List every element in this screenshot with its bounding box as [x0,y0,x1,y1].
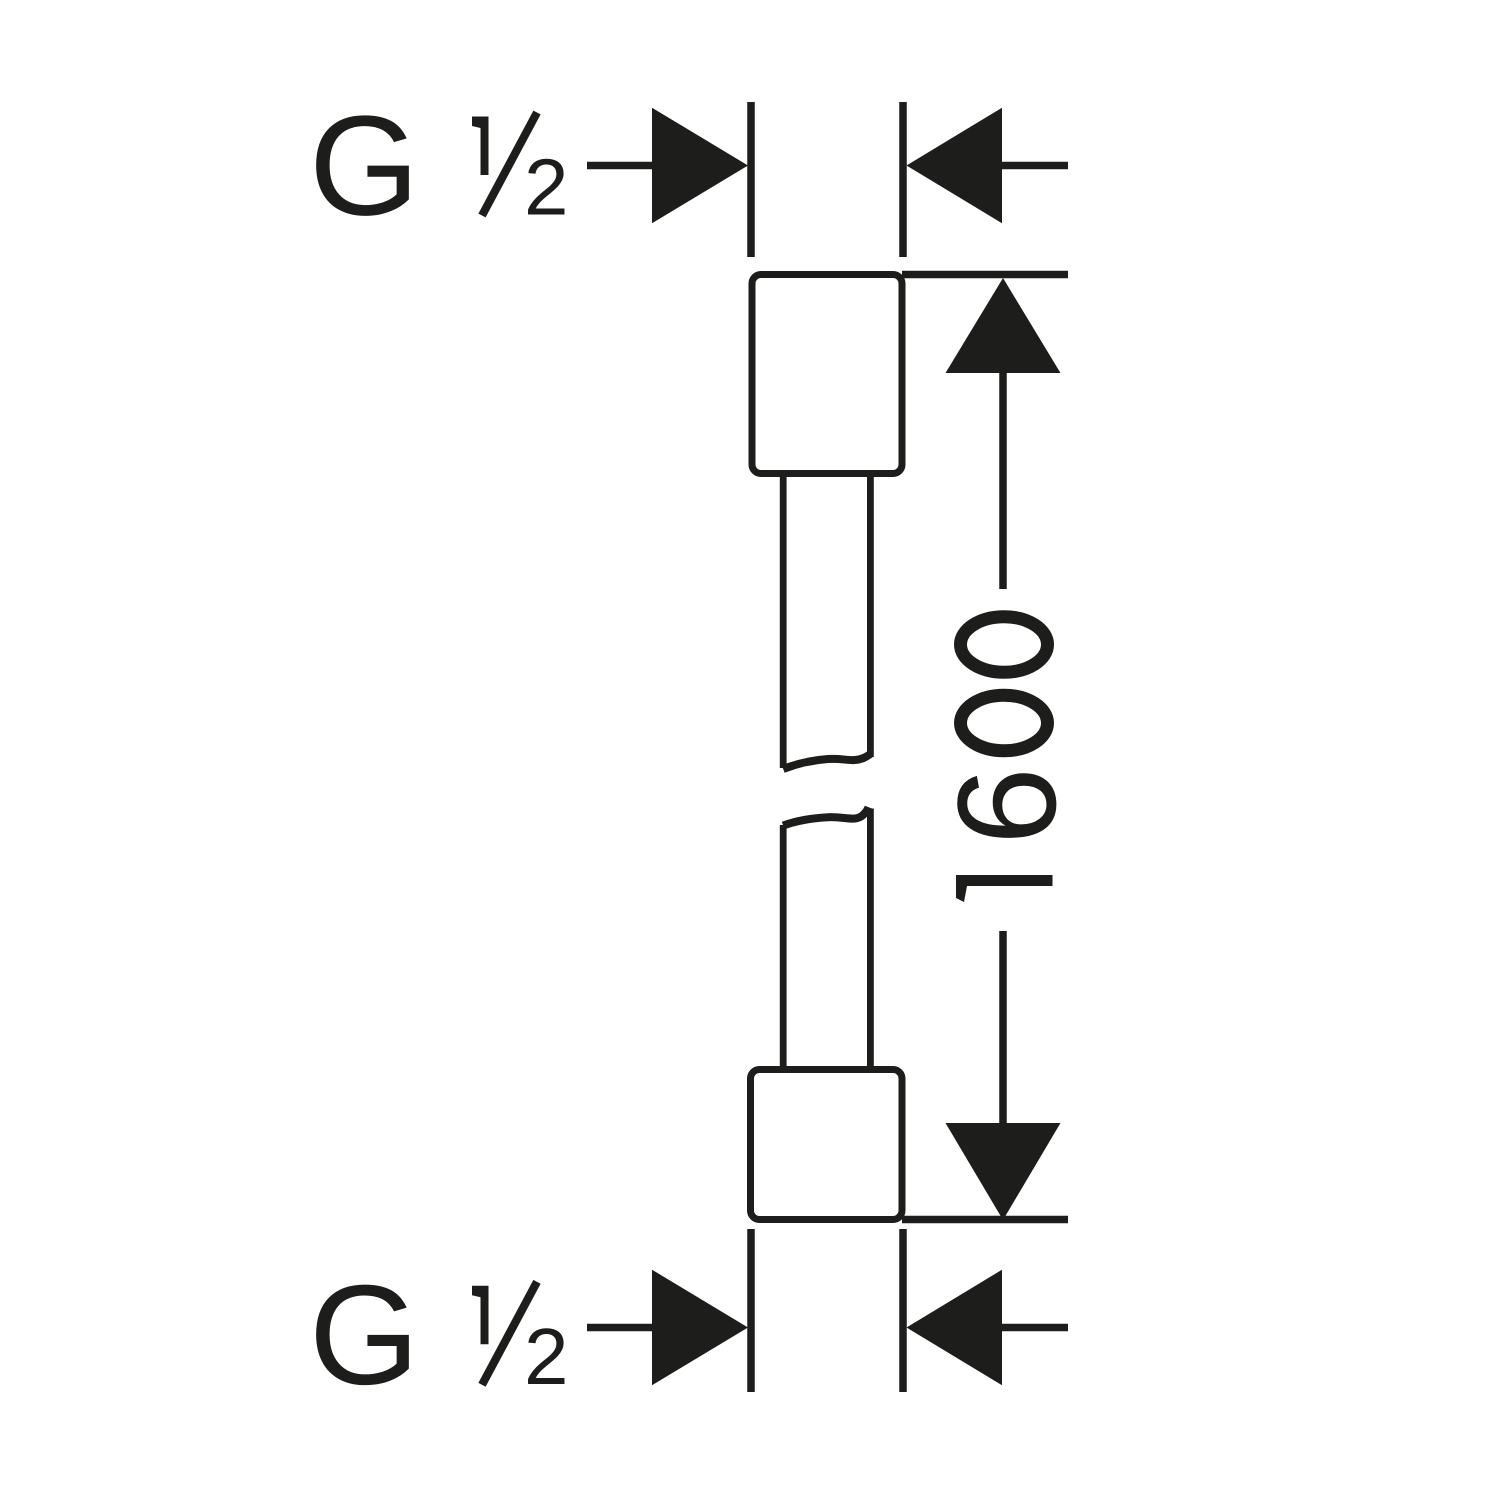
wire top-left leader [587,162,655,170]
node hose lower-left wall [780,825,787,1068]
wire top-right leader [999,162,1068,170]
node label 1/2 slash (bottom) [482,1282,537,1385]
wire top-left extension line [747,102,755,257]
wire dim line lower [999,931,1007,1124]
node hose connector top [752,275,902,474]
arrow bottom dim right-pointing [652,1270,748,1386]
svg-text:6: 6 [928,767,1085,845]
svg-text:G: G [309,1256,419,1415]
node label 1600 dimension digit 0 second [961,617,1048,673]
wire dim extension line upper-right horizontal [902,271,1068,279]
wire dim line upper [999,370,1007,589]
node hose upper-left wall [780,476,787,768]
node label 1600 dimension digit 1 [956,875,1053,902]
arrow top dim right-pointing [652,108,748,224]
svg-text:2: 2 [524,1312,569,1401]
arrow bottom dim left-pointing [907,1270,1003,1386]
node hose lower-right wall [867,809,874,1069]
arrow 1600 dim up-pointing [946,278,1061,373]
node label 1/2 numerator (bottom) [472,1286,489,1345]
wire bottom-left extension line [747,1229,755,1392]
node hose connector bottom [751,1070,903,1220]
svg-text:2: 2 [524,143,569,232]
wire dim extension line lower-right horizontal [902,1216,1068,1224]
wire bottom-left leader [587,1324,655,1332]
wire hose lower break wave [783,807,868,825]
wire bottom-right leader [999,1324,1068,1332]
wire top-right extension line [899,102,907,257]
arrow 1600 dim down-pointing [946,1123,1061,1220]
arrow top dim left-pointing [907,108,1003,224]
node label 1/2 numerator (top) [472,117,489,176]
node hose upper-right wall [867,476,874,757]
node label 1/2 slash (top) [482,113,537,216]
svg-text:G: G [309,87,419,246]
wire bottom-right extension line [899,1229,907,1392]
wire hose upper break wave [783,754,870,769]
node label 1600 dimension digit 0 first [961,695,1048,751]
